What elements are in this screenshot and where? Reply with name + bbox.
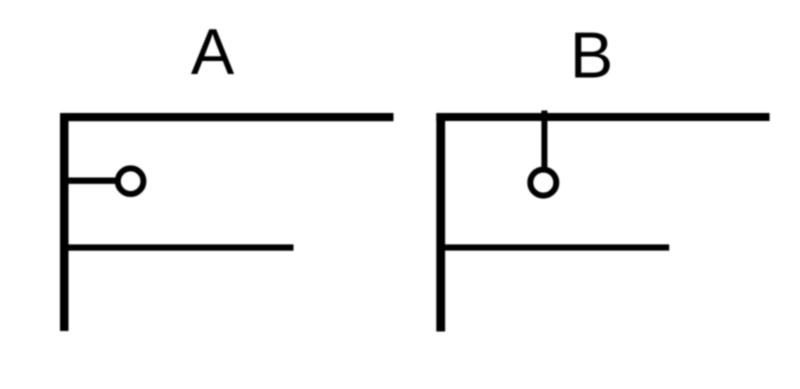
wire: diagram B lower horizontal line — [445, 244, 670, 250]
node: diagram A open-circle terminal — [118, 168, 144, 194]
wire: diagram A top horizontal line — [60, 113, 394, 121]
wire: diagram A lower horizontal line — [68, 244, 294, 250]
wire: diagram B top horizontal line — [436, 113, 769, 121]
node: diagram B open-circle terminal — [530, 170, 556, 196]
wire: diagram B vertical drop to circle — [541, 111, 547, 168]
wire: diagram B left vertical bus — [436, 113, 445, 332]
wire: diagram A left vertical bus — [60, 113, 69, 331]
svg-text:B: B — [570, 19, 613, 92]
wire: diagram A middle stub to circle — [68, 178, 116, 184]
svg-text:A: A — [191, 15, 235, 88]
